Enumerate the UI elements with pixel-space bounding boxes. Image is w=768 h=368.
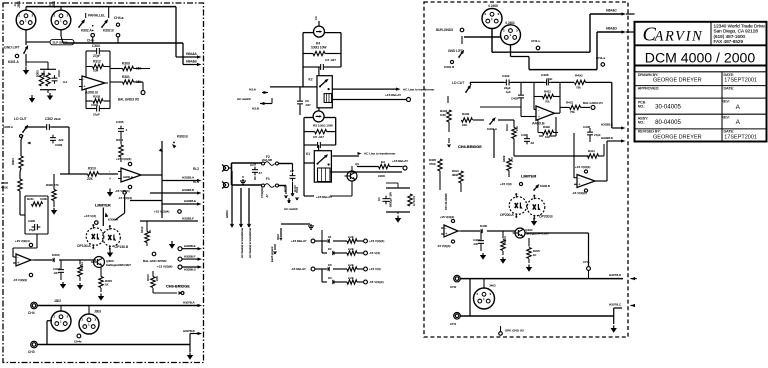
svg-text:AC Line to transformer: AC Line to transformer — [364, 152, 395, 156]
svg-text:DCM 4000 / 2000: DCM 4000 / 2000 — [645, 49, 756, 65]
svg-text:-15 RELAY: -15 RELAY — [291, 267, 306, 271]
svg-text:+15 V(3)(4): +15 V(3)(4) — [154, 210, 169, 214]
svg-text:C405: C405 — [583, 125, 591, 129]
svg-text:K302.A: K302.A — [81, 29, 92, 33]
svg-text:R312: R312 — [140, 226, 144, 233]
svg-text:H307B.B: H307B.B — [183, 329, 195, 333]
svg-text:2.2K: 2.2K — [348, 235, 354, 239]
svg-text:R414: R414 — [503, 236, 507, 243]
svg-text:6.8K: 6.8K — [440, 113, 446, 117]
svg-text:C3 .047: C3 .047 — [325, 58, 336, 62]
svg-text:R302: R302 — [42, 70, 46, 77]
svg-text:+: + — [445, 232, 447, 236]
svg-text:C402: C402 — [502, 74, 510, 78]
svg-text:R409: R409 — [502, 155, 506, 162]
svg-text:+: + — [109, 177, 111, 181]
svg-text:17SEPT2001: 17SEPT2001 — [724, 135, 757, 141]
svg-text:Q400: Q400 — [525, 228, 533, 232]
svg-text:AC switch: AC switch — [237, 97, 251, 101]
svg-text:D1: D1 — [328, 235, 332, 239]
svg-text:H4:D: H4:D — [293, 185, 297, 192]
svg-text:-15 V(3)(4): -15 V(3)(4) — [13, 278, 27, 282]
svg-text:OP130.B: OP130.B — [115, 245, 129, 249]
svg-text:CH3: CH3 — [28, 350, 35, 354]
svg-text:27pF: 27pF — [93, 113, 100, 117]
svg-text:+15 V(3)(4): +15 V(3)(4) — [575, 165, 590, 169]
svg-text:AC Neutral to transformer: AC Neutral to transformer — [248, 228, 252, 258]
svg-text:.047: .047 — [305, 103, 311, 107]
svg-text:H303B.G: H303B.G — [184, 268, 197, 272]
svg-text:-15 V(3): -15 V(3) — [369, 251, 380, 255]
svg-text:2K: 2K — [148, 230, 152, 233]
svg-text:REV:: REV: — [721, 115, 730, 119]
svg-text:C403: C403 — [511, 97, 518, 101]
svg-text:H303B.F: H303B.F — [182, 217, 194, 221]
svg-text:GND LIFT: GND LIFT — [448, 49, 463, 53]
svg-text:R310: R310 — [88, 167, 96, 171]
svg-text:H8A&C: H8A&C — [606, 9, 617, 13]
svg-text:+15 V(3): +15 V(3) — [500, 182, 512, 186]
svg-text:+15 RELAY: +15 RELAY — [385, 93, 402, 97]
svg-text:LO CUT: LO CUT — [452, 81, 464, 85]
svg-text:H3:A: H3:A — [249, 88, 257, 92]
svg-text:75k: 75k — [576, 86, 581, 90]
svg-text:C5 .047: C5 .047 — [313, 135, 324, 139]
svg-text:H303B.C: H303B.C — [601, 123, 614, 127]
svg-text:R211: R211 — [27, 197, 34, 201]
svg-text:C301: C301 — [91, 103, 99, 107]
svg-text:H303B.B: H303B.B — [182, 188, 194, 192]
svg-text:R314: R314 — [80, 262, 84, 269]
svg-text:K2: K2 — [309, 78, 313, 82]
svg-text:QG3: QG3 — [276, 234, 280, 240]
svg-text:3-1: 3-1 — [63, 80, 68, 84]
svg-text:CH4-a: CH4-a — [596, 56, 605, 60]
svg-text:+: + — [17, 261, 19, 265]
svg-text:-: - — [538, 108, 539, 112]
svg-text:RL2: RL2 — [193, 167, 199, 171]
svg-text:+15 V(3): +15 V(3) — [369, 267, 381, 271]
svg-text:17SEPT2001: 17SEPT2001 — [724, 77, 757, 83]
svg-text:360K: 360K — [452, 173, 459, 177]
svg-text:J301: J301 — [17, 1, 21, 8]
svg-text:DATE:: DATE: — [724, 130, 735, 134]
svg-text:R313: R313 — [146, 274, 150, 281]
svg-text:CH4-a: CH4-a — [114, 16, 124, 20]
svg-text:27pF: 27pF — [93, 54, 100, 58]
svg-text:R412: R412 — [544, 90, 551, 94]
svg-text:R311: R311 — [116, 138, 124, 142]
svg-text:LO CUT: LO CUT — [14, 117, 28, 121]
svg-text:+15 V(3): +15 V(3) — [84, 214, 96, 218]
svg-text:A: A — [736, 104, 741, 111]
svg-text:H303B.D: H303B.D — [601, 136, 614, 140]
svg-text:REVISED BY:: REVISED BY: — [638, 130, 661, 134]
svg-text:R400: R400 — [575, 74, 583, 78]
svg-text:GND3: GND3 — [225, 210, 229, 218]
svg-text:REV:: REV: — [721, 99, 730, 103]
svg-text:C306: C306 — [28, 219, 35, 223]
svg-text:.33: .33 — [530, 141, 534, 145]
svg-text:J402: J402 — [489, 284, 496, 288]
svg-text:AC Neutral to transformer: AC Neutral to transformer — [240, 228, 244, 258]
svg-text:SLP GND3: SLP GND3 — [53, 40, 68, 44]
svg-text:4: 4 — [14, 4, 16, 8]
svg-text:1K: 1K — [105, 283, 109, 287]
svg-text:+15 V(3)(4): +15 V(3)(4) — [116, 157, 131, 161]
svg-text:P/O 30-04005: P/O 30-04005 — [444, 193, 448, 210]
svg-text:-15 V(3)(4): -15 V(3)(4) — [437, 244, 450, 248]
svg-text:K301.A: K301.A — [8, 60, 19, 64]
svg-text:R411: R411 — [588, 149, 595, 153]
svg-text:D400: D400 — [480, 224, 488, 228]
svg-text:2.2K: 2.2K — [348, 263, 354, 267]
svg-text:C302: C302 — [45, 117, 53, 121]
svg-text:R401: R401 — [566, 101, 574, 105]
svg-text:LIMITER: LIMITER — [95, 203, 111, 208]
svg-text:A300.A: A300.A — [123, 175, 133, 179]
svg-text:80-04005: 80-04005 — [655, 119, 681, 126]
svg-text:R5 100Ω 10W: R5 100Ω 10W — [313, 124, 333, 128]
svg-text:C310: C310 — [57, 70, 61, 77]
svg-text:CH1: CH1 — [450, 322, 457, 326]
svg-text:DRAWN BY:: DRAWN BY: — [638, 73, 659, 77]
svg-text:470K: 470K — [1, 186, 8, 190]
svg-text:.022: .022 — [58, 138, 64, 142]
svg-text:K305.A: K305.A — [3, 125, 13, 129]
svg-text:C303: C303 — [55, 143, 63, 147]
svg-text:R402: R402 — [543, 125, 550, 129]
svg-text:-: - — [109, 170, 110, 174]
svg-text:+15 V(3)(4): +15 V(3)(4) — [157, 265, 172, 269]
svg-text:K303.A: K303.A — [487, 127, 497, 131]
svg-text:H3:B: H3:B — [252, 107, 259, 111]
svg-text:D3: D3 — [328, 263, 332, 267]
svg-text:270: 270 — [510, 157, 514, 162]
svg-text:C305: C305 — [116, 120, 124, 124]
svg-text:2.5Ω(AC): 2.5Ω(AC) — [260, 186, 264, 198]
svg-text:OP200.B: OP200.B — [539, 215, 553, 219]
svg-text:R305: R305 — [1, 181, 9, 185]
svg-text:D2: D2 — [328, 247, 332, 251]
svg-text:Earth ground: Earth ground — [270, 246, 274, 262]
svg-text:2.2K: 2.2K — [348, 276, 354, 280]
svg-text:1µF: 1µF — [506, 90, 511, 94]
svg-text:220K: 220K — [378, 174, 386, 178]
svg-text:22K: 22K — [155, 276, 159, 281]
svg-text:470K: 470K — [429, 162, 436, 166]
svg-text:R304: R304 — [11, 158, 15, 165]
svg-text:H303B.E: H303B.E — [184, 199, 196, 203]
svg-text:DATE:: DATE: — [724, 73, 735, 77]
svg-text:FAX 487-8529: FAX 487-8529 — [714, 39, 744, 44]
svg-text:DATE:: DATE: — [724, 87, 735, 91]
svg-text:C2: C2 — [250, 163, 254, 167]
svg-text:ARVIN: ARVIN — [654, 29, 704, 45]
svg-text:H307B.C: H307B.C — [609, 303, 622, 307]
svg-text:R2: R2 — [381, 160, 385, 164]
svg-text:BUR-GND3: BUR-GND3 — [436, 28, 453, 32]
svg-text:H307B.D: H307B.D — [609, 273, 622, 277]
svg-text:GEORGE DREYER: GEORGE DREYER — [653, 77, 702, 83]
svg-text:BAL GND3 I/O: BAL GND3 I/O — [118, 98, 140, 102]
svg-text:J302: J302 — [54, 299, 61, 303]
svg-text:F1: F1 — [266, 177, 270, 181]
svg-text:H8A&D: H8A&D — [606, 27, 617, 31]
svg-text:PARALLEL: PARALLEL — [88, 14, 105, 18]
svg-text:H303B.A: H303B.A — [182, 176, 194, 180]
svg-text:A: A — [736, 119, 741, 126]
svg-text:6800µF 16V: 6800µF 16V — [389, 192, 393, 207]
svg-text:R312: R312 — [93, 60, 101, 64]
svg-text:.47: .47 — [258, 171, 262, 175]
svg-text:K1: K1 — [306, 152, 310, 156]
svg-text:R301: R301 — [122, 75, 130, 79]
svg-text:AC switch: AC switch — [284, 207, 298, 211]
svg-text:CH4s: CH4s — [74, 340, 82, 344]
svg-text:CH3-BRIDGE: CH3-BRIDGE — [166, 285, 190, 289]
svg-text:NO.:: NO.: — [638, 105, 646, 109]
svg-text:75k: 75k — [570, 110, 575, 114]
svg-text:70k: 70k — [545, 100, 550, 104]
svg-text:CH4-: CH4- — [87, 39, 95, 43]
svg-text:+: + — [538, 115, 540, 119]
svg-text:K301.B: K301.B — [444, 65, 454, 69]
svg-text:4.7K R1: 4.7K R1 — [412, 196, 416, 206]
svg-text:R303: R303 — [36, 70, 40, 77]
svg-text:NO.:: NO.: — [638, 121, 646, 125]
svg-text:22K: 22K — [87, 177, 94, 181]
svg-text:OP200.A: OP200.A — [500, 213, 514, 217]
svg-text:.1: .1 — [125, 128, 128, 132]
svg-text:GEORGE DREYER: GEORGE DREYER — [653, 135, 702, 141]
svg-text:22K: 22K — [462, 123, 467, 127]
svg-text:J303: J303 — [94, 310, 101, 314]
svg-text:4 J400: 4 J400 — [488, 4, 498, 8]
svg-text:30-04005: 30-04005 — [655, 104, 681, 111]
svg-text:.047: .047 — [473, 242, 479, 246]
svg-text:DarlingtonNPN.SMT: DarlingtonNPN.SMT — [106, 263, 131, 267]
svg-text:+15 V(3)(4): +15 V(3)(4) — [15, 239, 30, 243]
svg-text:270: 270 — [515, 126, 519, 131]
svg-text:.047: .047 — [53, 271, 59, 275]
svg-text:H8A&B: H8A&B — [186, 60, 197, 64]
svg-text:H8A&A: H8A&A — [186, 52, 197, 56]
svg-text:R410: R410 — [505, 124, 509, 131]
svg-text:D4: D4 — [328, 276, 332, 280]
svg-text:22uF: 22uF — [54, 117, 61, 121]
svg-text:APPROVED:: APPROVED: — [638, 87, 660, 91]
svg-text:+15 RELAY: +15 RELAY — [392, 159, 409, 163]
svg-text:H303B.F: H303B.F — [184, 255, 196, 259]
svg-text:CH4-: CH4- — [583, 260, 590, 264]
svg-text:CH2: CH2 — [450, 285, 457, 289]
svg-text:LIMITER: LIMITER — [521, 175, 537, 179]
svg-text:R300: R300 — [122, 62, 130, 66]
svg-text:F3: F3 — [314, 16, 318, 20]
svg-text:C300: C300 — [92, 44, 100, 48]
svg-text:+: + — [83, 85, 85, 89]
svg-text:AC Line to transformer: AC Line to transformer — [403, 87, 434, 91]
svg-text:1K: 1K — [533, 253, 537, 257]
svg-text:CH4-BRIDGE: CH4-BRIDGE — [458, 145, 482, 149]
svg-text:D303: D303 — [52, 253, 60, 257]
svg-text:R306 270: R306 270 — [46, 183, 59, 187]
svg-text:K302.B: K302.B — [103, 29, 114, 33]
svg-text:2.2K: 2.2K — [348, 247, 354, 251]
svg-text:Q1: Q1 — [355, 162, 359, 166]
svg-text:-15 V(3)(4): -15 V(3)(4) — [369, 280, 384, 284]
svg-text:R303: R303 — [93, 95, 101, 99]
svg-text:RL1: RL1 — [193, 180, 199, 184]
svg-text:+15 RELAY: +15 RELAY — [291, 239, 307, 243]
svg-text:R403: R403 — [462, 112, 470, 116]
svg-text:100Ω 10W: 100Ω 10W — [311, 46, 327, 50]
svg-text:3.60K: 3.60K — [40, 197, 47, 201]
svg-text:K303.B: K303.B — [177, 135, 188, 139]
svg-text:27pF: 27pF — [594, 133, 601, 137]
svg-text:GND LIFT: GND LIFT — [4, 46, 21, 50]
svg-text:10k: 10k — [93, 69, 99, 73]
svg-text:BAL GND3 I/O: BAL GND3 I/O — [583, 101, 603, 105]
svg-text:H307B.A: H307B.A — [183, 301, 195, 305]
svg-text:H303B.E: H303B.E — [184, 244, 196, 248]
svg-text:.47: .47 — [265, 194, 269, 198]
svg-text:OP130.A: OP130.A — [77, 244, 91, 248]
svg-text:C1: C1 — [377, 197, 381, 201]
svg-text:SPK GND I/O: SPK GND I/O — [505, 329, 525, 333]
svg-text:27pF: 27pF — [29, 228, 36, 232]
svg-text:-15 V(3)(4): -15 V(3)(4) — [115, 189, 130, 193]
svg-text:+15 V(3)(4): +15 V(3)(4) — [369, 239, 384, 243]
svg-text:CH4: CH4 — [28, 311, 35, 315]
svg-text:+: + — [578, 182, 580, 186]
svg-text:BAL GND 3PWR: BAL GND 3PWR — [143, 259, 167, 263]
svg-text:CH4-s: CH4-s — [531, 39, 540, 43]
svg-text:+15 V(3)(4): +15 V(3)(4) — [440, 215, 454, 219]
svg-text:K306.B: K306.B — [540, 184, 550, 188]
